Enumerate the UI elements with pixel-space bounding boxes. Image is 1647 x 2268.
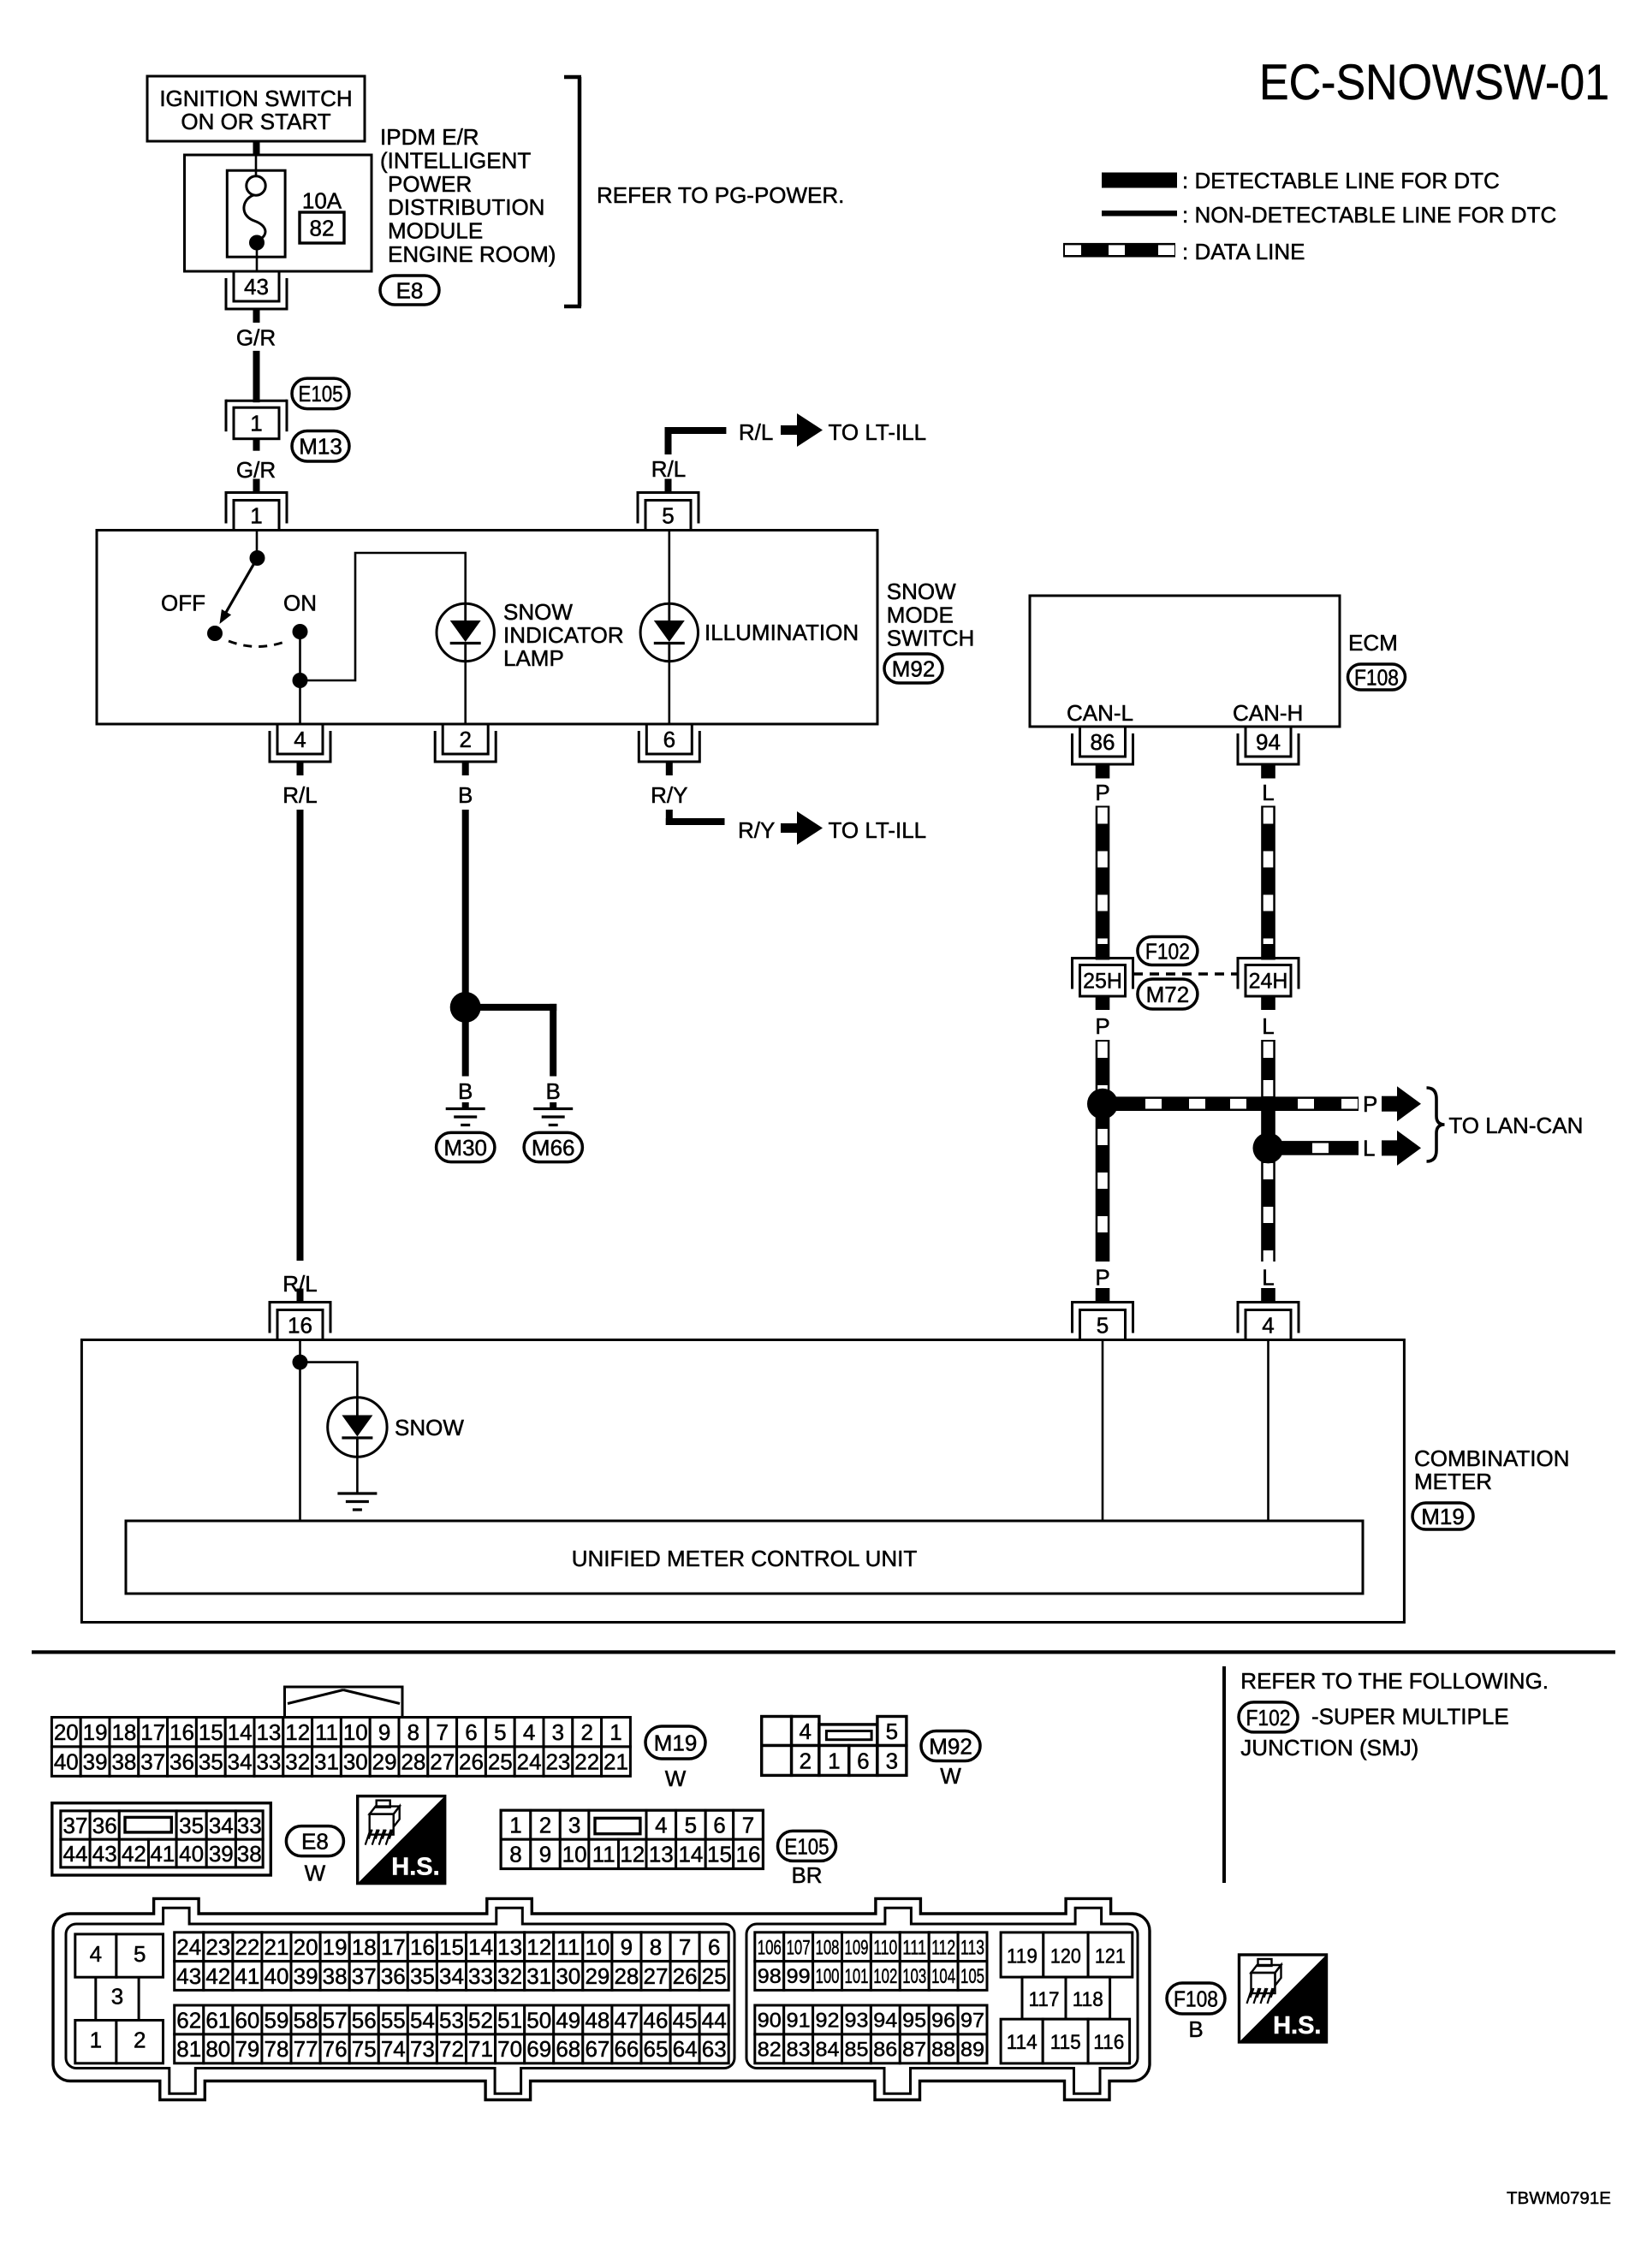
svg-text:52: 52 xyxy=(468,2007,493,2033)
ground junction dot B wire xyxy=(450,992,481,1023)
svg-text:50: 50 xyxy=(526,2007,551,2033)
svg-text:TO LT-ILL: TO LT-ILL xyxy=(829,817,927,843)
svg-text:38: 38 xyxy=(237,1841,262,1867)
svg-text:L: L xyxy=(1262,917,1274,942)
svg-text:94: 94 xyxy=(1256,729,1281,755)
wire B below junction xyxy=(462,1022,469,1077)
switch arm with arrow xyxy=(226,558,258,613)
F108 pilot pins 4 5 3 1 2 xyxy=(75,1934,116,1977)
svg-text:74: 74 xyxy=(381,2036,406,2062)
svg-text:R/L: R/L xyxy=(739,419,773,445)
wire B segment to ground junction xyxy=(462,810,469,1007)
svg-text:37: 37 xyxy=(63,1813,88,1838)
svg-text:23: 23 xyxy=(545,1749,570,1775)
ground snow led xyxy=(337,1492,377,1494)
wire meter pin 4 to unified unit xyxy=(1267,1340,1269,1522)
svg-text:P: P xyxy=(1363,1091,1377,1117)
wire R/L elbow to LT-ILL xyxy=(665,430,672,454)
svg-text:6: 6 xyxy=(857,1748,869,1773)
svg-text:91: 91 xyxy=(787,2010,811,2033)
connector oval M92 xyxy=(884,654,942,683)
svg-text:: DETECTABLE LINE FOR DTC: : DETECTABLE LINE FOR DTC xyxy=(1182,168,1500,193)
svg-text:12: 12 xyxy=(285,1719,310,1745)
svg-text:6: 6 xyxy=(465,1719,477,1745)
connector pin 1 snow mode switch xyxy=(226,491,287,494)
svg-text:28: 28 xyxy=(614,1963,639,1989)
svg-text:19: 19 xyxy=(83,1719,108,1745)
svg-text:15: 15 xyxy=(199,1719,223,1745)
F108 grid pins 117-118 xyxy=(1022,1977,1066,2019)
svg-text:7: 7 xyxy=(742,1813,754,1838)
wire meter pin 5 to unified unit xyxy=(1102,1340,1104,1522)
svg-text:10A: 10A xyxy=(302,188,342,214)
svg-text:M19: M19 xyxy=(654,1730,698,1755)
svg-text:BR: BR xyxy=(791,1862,822,1888)
svg-text:M92: M92 xyxy=(892,656,936,681)
connector oval M13 xyxy=(292,431,349,462)
svg-text:16: 16 xyxy=(169,1719,194,1745)
svg-text:110: 110 xyxy=(873,1936,897,1959)
svg-text:75: 75 xyxy=(352,2036,377,2062)
svg-text:56: 56 xyxy=(352,2007,377,2033)
inline connector 25H xyxy=(1096,944,1110,960)
meter junction dot pin 16 xyxy=(299,1340,301,1363)
svg-text:100: 100 xyxy=(816,1965,840,1988)
svg-text:4: 4 xyxy=(90,1941,102,1967)
ground M66 xyxy=(550,1102,556,1107)
snow mode switch box M92 xyxy=(97,531,877,725)
svg-text:8: 8 xyxy=(407,1719,419,1745)
svg-text:G/R: G/R xyxy=(236,325,276,351)
bracket refer to pg-power xyxy=(578,77,582,306)
svg-text:F102: F102 xyxy=(1145,938,1190,964)
svg-text:104: 104 xyxy=(931,1965,955,1988)
svg-text:66: 66 xyxy=(614,2036,639,2062)
svg-text:55: 55 xyxy=(381,2007,406,2033)
svg-text:TBWM0791E: TBWM0791E xyxy=(1507,2188,1611,2208)
svg-text:44: 44 xyxy=(702,2007,727,2033)
switch wire from pin 1 xyxy=(256,531,259,554)
svg-text:22: 22 xyxy=(574,1749,599,1775)
wire G/R segment 1 xyxy=(253,351,260,401)
hood switch icon H.S. for F108 xyxy=(1240,1955,1327,2042)
connector pin 86 ECM xyxy=(1073,763,1133,766)
svg-text:11: 11 xyxy=(592,1842,615,1867)
svg-text:35: 35 xyxy=(410,1963,435,1989)
svg-text:8: 8 xyxy=(650,1934,662,1960)
svg-text:20: 20 xyxy=(294,1934,318,1960)
connector oval M19 meter xyxy=(1412,1503,1473,1529)
E105 keyway slot xyxy=(595,1818,640,1833)
svg-text:OFF: OFF xyxy=(161,591,205,616)
svg-text:1: 1 xyxy=(90,2028,102,2053)
F108 inner shell right xyxy=(746,1908,1138,2093)
svg-text:5: 5 xyxy=(494,1719,506,1745)
svg-text:48: 48 xyxy=(585,2007,609,2033)
svg-text:82: 82 xyxy=(758,2039,782,2062)
svg-text:22: 22 xyxy=(235,1934,259,1960)
data line P upper segment xyxy=(1096,806,1110,945)
svg-text:97: 97 xyxy=(960,2010,984,2033)
svg-text:116: 116 xyxy=(1093,2031,1124,2054)
svg-text:W: W xyxy=(305,1861,326,1886)
svg-text:5: 5 xyxy=(1097,1312,1109,1338)
connector pin 43 of IPDM xyxy=(226,308,287,311)
legend detectable line sample xyxy=(1102,173,1177,188)
wire R/Y elbow to LT-ILL xyxy=(666,810,673,825)
svg-text:117: 117 xyxy=(1029,1988,1060,2011)
svg-text:B: B xyxy=(1188,2016,1203,2042)
svg-text:17: 17 xyxy=(140,1719,165,1745)
svg-text:59: 59 xyxy=(265,2007,289,2033)
svg-text:46: 46 xyxy=(644,2007,669,2033)
svg-text:6: 6 xyxy=(713,1813,725,1838)
data junction dot L xyxy=(1253,1132,1284,1163)
svg-text:49: 49 xyxy=(556,2007,580,2033)
svg-text:3: 3 xyxy=(886,1748,898,1773)
arrow L to LAN-CAN xyxy=(1382,1140,1399,1155)
data line L lower segment xyxy=(1261,1040,1275,1262)
svg-text:M72: M72 xyxy=(1146,982,1190,1007)
F108 grid pins 24-6 / 43-25 xyxy=(175,1933,204,1962)
data line L horizontal to LAN-CAN xyxy=(1269,1141,1359,1155)
svg-text:15: 15 xyxy=(707,1842,732,1867)
legend non-detectable line sample xyxy=(1102,211,1177,217)
svg-text:60: 60 xyxy=(235,2007,259,2033)
svg-text:102: 102 xyxy=(873,1965,897,1988)
svg-text:REFER TO PG-POWER.: REFER TO PG-POWER. xyxy=(597,182,844,208)
svg-text:43: 43 xyxy=(244,274,269,300)
svg-text:90: 90 xyxy=(758,2010,782,2033)
svg-text:LAMP: LAMP xyxy=(503,645,564,671)
connector oval E105 bottom xyxy=(778,1831,836,1861)
wire lamp down to pin 2 xyxy=(464,662,467,724)
svg-text:18: 18 xyxy=(352,1934,377,1960)
switch OFF contact dot xyxy=(207,626,223,641)
svg-text:84: 84 xyxy=(816,2039,840,2062)
svg-text:14: 14 xyxy=(468,1934,493,1960)
wire ignition to IPDM xyxy=(253,141,260,155)
svg-text:21: 21 xyxy=(265,1934,289,1960)
svg-text:81: 81 xyxy=(176,2036,201,2062)
svg-text:METER: METER xyxy=(1414,1469,1492,1494)
svg-text:2: 2 xyxy=(134,2028,146,2053)
svg-text:23: 23 xyxy=(205,1934,230,1960)
connector grid E105 xyxy=(501,1810,763,1868)
svg-text:7: 7 xyxy=(436,1719,448,1745)
connector oval E105 xyxy=(292,378,349,409)
svg-text:118: 118 xyxy=(1073,1988,1103,2011)
svg-text:1: 1 xyxy=(250,411,262,436)
svg-text:27: 27 xyxy=(644,1963,669,1989)
svg-text:114: 114 xyxy=(1007,2031,1038,2054)
svg-text:E105: E105 xyxy=(299,381,343,407)
svg-text:62: 62 xyxy=(176,2007,201,2033)
svg-text:25: 25 xyxy=(702,1963,727,1989)
svg-text:36: 36 xyxy=(92,1813,117,1838)
F108 grid pins 90-97 / 82-89 xyxy=(755,2005,784,2034)
svg-text:39: 39 xyxy=(294,1963,318,1989)
svg-text:24: 24 xyxy=(517,1749,542,1775)
svg-text:106: 106 xyxy=(758,1936,782,1959)
inline connector 1 E105/M13 xyxy=(253,387,260,402)
svg-text:27: 27 xyxy=(430,1749,455,1775)
svg-text:16: 16 xyxy=(736,1842,761,1867)
svg-text:95: 95 xyxy=(902,2010,926,2033)
svg-text:42: 42 xyxy=(122,1841,146,1867)
svg-text:38: 38 xyxy=(323,1963,348,1989)
connector oval E8 bottom xyxy=(286,1826,343,1856)
svg-text:2: 2 xyxy=(459,727,471,752)
svg-text:68: 68 xyxy=(556,2036,580,2062)
svg-text:9: 9 xyxy=(621,1934,633,1960)
svg-text:96: 96 xyxy=(931,2010,955,2033)
svg-text:24: 24 xyxy=(176,1934,201,1960)
wire junction down to pin 4 xyxy=(299,680,301,724)
wire R/L long segment to pin 16 xyxy=(297,810,304,1261)
svg-text:3: 3 xyxy=(552,1719,564,1745)
connector oval F102 xyxy=(1138,937,1198,965)
connector pin 5 combination meter xyxy=(1073,1301,1133,1303)
arrow to LT-ILL bottom xyxy=(781,823,799,833)
svg-text:24H: 24H xyxy=(1249,970,1288,994)
svg-text:103: 103 xyxy=(902,1965,926,1988)
svg-text:EC-SNOWSW-01: EC-SNOWSW-01 xyxy=(1259,55,1609,110)
svg-text:77: 77 xyxy=(294,2036,318,2062)
svg-text:78: 78 xyxy=(265,2036,289,2062)
wire junction to snow indicator lamp xyxy=(300,553,466,680)
svg-text:TO LT-ILL: TO LT-ILL xyxy=(829,419,927,445)
svg-text:109: 109 xyxy=(845,1936,869,1959)
svg-text:1: 1 xyxy=(828,1748,840,1773)
F108 grid pins 106-113 / 98-105 xyxy=(755,1933,784,1962)
svg-text:86: 86 xyxy=(873,2039,897,2062)
svg-text:4: 4 xyxy=(799,1719,811,1744)
svg-text:L: L xyxy=(1262,780,1274,805)
svg-text:M19: M19 xyxy=(1421,1504,1465,1529)
data junction dot P xyxy=(1087,1089,1118,1119)
svg-text:119: 119 xyxy=(1007,1944,1038,1968)
svg-text:R/Y: R/Y xyxy=(738,817,775,843)
svg-text:M13: M13 xyxy=(299,434,342,460)
svg-text:: DATA LINE: : DATA LINE xyxy=(1182,239,1305,264)
data line P lower segment xyxy=(1096,1040,1110,1262)
svg-text:8: 8 xyxy=(509,1842,521,1867)
svg-text:25: 25 xyxy=(488,1749,513,1775)
svg-text:REFER TO THE FOLLOWING.: REFER TO THE FOLLOWING. xyxy=(1240,1668,1549,1694)
svg-text:41: 41 xyxy=(235,1963,259,1989)
svg-text:IPDM E/R: IPDM E/R xyxy=(380,124,479,150)
F108 grid pins 114-116 xyxy=(1001,2019,1043,2063)
svg-text:13: 13 xyxy=(256,1719,281,1745)
svg-text:39: 39 xyxy=(83,1749,108,1775)
svg-text:83: 83 xyxy=(787,2039,811,2062)
svg-text:14: 14 xyxy=(678,1842,703,1867)
svg-text:34: 34 xyxy=(439,1963,464,1989)
connector grid E8 xyxy=(52,1803,271,1875)
svg-text:34: 34 xyxy=(209,1813,234,1838)
svg-text:72: 72 xyxy=(439,2036,464,2062)
svg-text:64: 64 xyxy=(673,2036,698,2062)
svg-text:44: 44 xyxy=(63,1841,88,1867)
svg-text:7: 7 xyxy=(679,1934,691,1960)
svg-text:CAN-H: CAN-H xyxy=(1233,700,1303,726)
svg-text:88: 88 xyxy=(931,2039,955,2062)
svg-text:E105: E105 xyxy=(785,1833,829,1859)
SNOW led combination meter xyxy=(328,1398,387,1457)
svg-text:4: 4 xyxy=(523,1719,535,1745)
switch junction dot xyxy=(293,673,308,688)
svg-text:13: 13 xyxy=(497,1934,522,1960)
svg-text:32: 32 xyxy=(497,1963,522,1989)
wire G/R segment 2 xyxy=(253,484,260,493)
svg-text:35: 35 xyxy=(179,1813,204,1838)
svg-text:SWITCH: SWITCH xyxy=(887,626,975,651)
wire B branch to M66 xyxy=(466,1004,557,1011)
connector M19 latch tab xyxy=(285,1687,403,1718)
svg-text:COMBINATION: COMBINATION xyxy=(1414,1446,1570,1471)
inline connector 24H xyxy=(1261,944,1275,960)
svg-text:21: 21 xyxy=(604,1749,628,1775)
svg-text:L: L xyxy=(1262,1013,1274,1039)
svg-text:80: 80 xyxy=(205,2036,230,2062)
E8 keyway slot xyxy=(125,1817,171,1832)
svg-text:10: 10 xyxy=(343,1719,368,1745)
svg-text:33: 33 xyxy=(256,1749,281,1775)
svg-text:1: 1 xyxy=(250,502,262,528)
svg-text:105: 105 xyxy=(960,1965,984,1988)
svg-text:37: 37 xyxy=(352,1963,377,1989)
svg-text:5: 5 xyxy=(685,1813,697,1838)
svg-text:W: W xyxy=(940,1763,961,1789)
svg-text:111: 111 xyxy=(902,1936,926,1959)
arrow to LT-ILL top xyxy=(781,425,799,435)
svg-text:5: 5 xyxy=(886,1719,898,1744)
svg-text:40: 40 xyxy=(265,1963,289,1989)
hood switch icon H.S. for E8 xyxy=(358,1796,445,1884)
svg-text:42: 42 xyxy=(205,1963,230,1989)
ignition switch box xyxy=(147,76,365,141)
svg-text:63: 63 xyxy=(702,2036,727,2062)
svg-text:H.S.: H.S. xyxy=(1273,2012,1321,2039)
svg-text:3: 3 xyxy=(568,1813,580,1838)
svg-text:10: 10 xyxy=(562,1842,587,1867)
svg-text:26: 26 xyxy=(459,1749,484,1775)
svg-text:29: 29 xyxy=(372,1749,397,1775)
svg-text:15: 15 xyxy=(439,1934,464,1960)
svg-text:ON: ON xyxy=(283,591,317,616)
svg-text:IGNITION SWITCH: IGNITION SWITCH xyxy=(159,86,352,111)
svg-text:107: 107 xyxy=(787,1936,811,1959)
svg-text:14: 14 xyxy=(228,1719,253,1745)
svg-text:JUNCTION (SMJ): JUNCTION (SMJ) xyxy=(1240,1735,1418,1760)
svg-text:71: 71 xyxy=(468,2036,493,2062)
svg-text:F108: F108 xyxy=(1174,1986,1218,2011)
legend data line sample xyxy=(1063,243,1175,258)
svg-text:F102: F102 xyxy=(1246,1705,1291,1731)
svg-text:92: 92 xyxy=(816,2010,840,2033)
svg-text:54: 54 xyxy=(410,2007,435,2033)
svg-text:112: 112 xyxy=(931,1936,955,1959)
svg-text:MODULE: MODULE xyxy=(388,218,483,244)
svg-text:M30: M30 xyxy=(443,1135,487,1161)
svg-text:31: 31 xyxy=(314,1749,339,1775)
svg-text:TO LAN-CAN: TO LAN-CAN xyxy=(1448,1113,1583,1138)
svg-text:UNIFIED METER CONTROL UNIT: UNIFIED METER CONTROL UNIT xyxy=(572,1546,918,1571)
svg-text:16: 16 xyxy=(410,1934,435,1960)
svg-text:43: 43 xyxy=(92,1841,117,1867)
svg-text:11: 11 xyxy=(315,1719,338,1745)
wire led to ground xyxy=(356,1457,359,1493)
svg-text:2: 2 xyxy=(539,1813,551,1838)
svg-text:4: 4 xyxy=(1262,1312,1274,1338)
switch pivot dot xyxy=(250,550,265,566)
svg-text:11: 11 xyxy=(556,1934,580,1960)
svg-text:20: 20 xyxy=(54,1719,79,1745)
connector pin 94 ECM xyxy=(1238,763,1299,766)
IPDM E/R box xyxy=(185,155,372,271)
svg-text:36: 36 xyxy=(381,1963,406,1989)
svg-text:41: 41 xyxy=(150,1841,175,1867)
svg-text:38: 38 xyxy=(111,1749,136,1775)
svg-text:58: 58 xyxy=(294,2007,318,2033)
connector oval M72 xyxy=(1138,979,1198,1009)
unified meter control unit box xyxy=(126,1521,1363,1594)
svg-text:13: 13 xyxy=(649,1842,674,1867)
wire pin16 to unified meter control unit xyxy=(299,1363,301,1521)
svg-text:113: 113 xyxy=(960,1936,984,1959)
illumination LED xyxy=(640,603,698,661)
fuse 10A box xyxy=(227,170,285,257)
connector pin 16 combination meter xyxy=(270,1301,330,1303)
svg-text:40: 40 xyxy=(54,1749,79,1775)
connector pin 4 combination meter xyxy=(1238,1301,1299,1303)
svg-text:B: B xyxy=(546,1078,561,1104)
svg-text:3: 3 xyxy=(111,1984,123,2010)
svg-text:32: 32 xyxy=(285,1749,310,1775)
svg-text:P: P xyxy=(1095,917,1109,942)
svg-text:4: 4 xyxy=(294,727,306,752)
wire pin 5 through illumination to pin 6 xyxy=(668,531,670,604)
svg-text:39: 39 xyxy=(209,1841,234,1867)
svg-text:94: 94 xyxy=(873,2010,897,2033)
svg-text:73: 73 xyxy=(410,2036,435,2062)
svg-text:R/L: R/L xyxy=(282,782,317,808)
svg-text:86: 86 xyxy=(1091,729,1115,755)
svg-text:45: 45 xyxy=(673,2007,698,2033)
svg-text:31: 31 xyxy=(526,1963,551,1989)
connector oval M19 bottom xyxy=(645,1726,705,1759)
svg-text:19: 19 xyxy=(323,1934,348,1960)
svg-text:F108: F108 xyxy=(1354,664,1399,690)
svg-text:1: 1 xyxy=(609,1719,621,1745)
fuse number box 82 xyxy=(300,212,344,243)
svg-text:10: 10 xyxy=(585,1934,609,1960)
svg-text:ON OR START: ON OR START xyxy=(181,109,330,134)
svg-text:INDICATOR: INDICATOR xyxy=(503,622,624,648)
F108 grid pins 119-121 xyxy=(1001,1933,1043,1977)
svg-text:DISTRIBUTION: DISTRIBUTION xyxy=(388,194,544,220)
svg-text:(INTELLIGENT: (INTELLIGENT xyxy=(380,147,531,173)
svg-text:H.S.: H.S. xyxy=(391,1854,439,1881)
svg-text:57: 57 xyxy=(323,2007,348,2033)
svg-text:40: 40 xyxy=(179,1841,204,1867)
connector oval F108 bottom xyxy=(1167,1983,1225,2014)
svg-text:P: P xyxy=(1095,1265,1109,1291)
svg-text:M92: M92 xyxy=(929,1733,972,1759)
connector oval F102 refer xyxy=(1239,1702,1298,1732)
svg-text:65: 65 xyxy=(644,2036,669,2062)
